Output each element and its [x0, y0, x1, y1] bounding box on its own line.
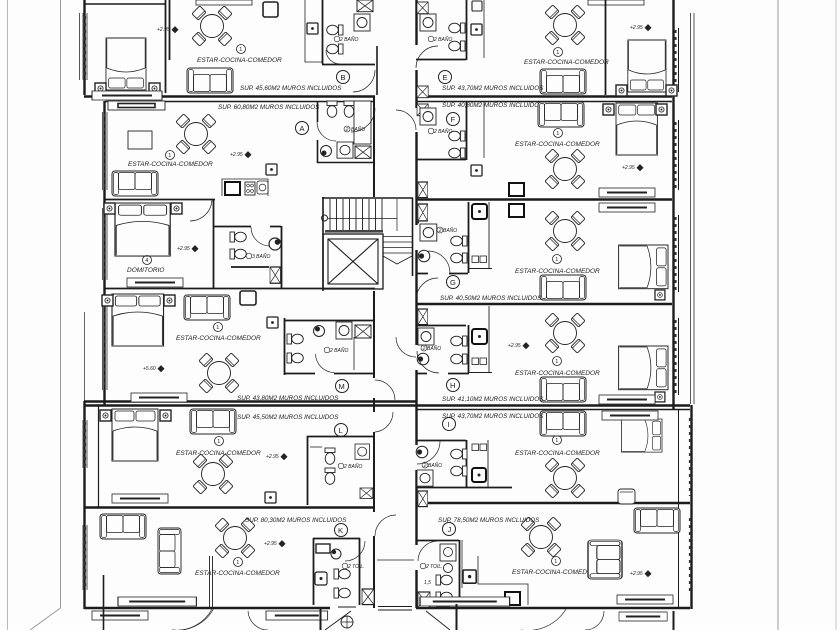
bath L walls [307, 436, 375, 505]
room number H [553, 357, 562, 366]
left outer wall top (row B) [83, 0, 85, 95]
dining table M [199, 353, 239, 393]
wc A3 [230, 232, 246, 242]
duct J [418, 592, 430, 608]
stair walls [322, 197, 413, 291]
svg-text:+2.95: +2.95 [622, 165, 635, 171]
apt letter F [447, 113, 460, 126]
level mark H [508, 342, 530, 349]
dining table L [193, 454, 233, 494]
svg-text:1: 1 [239, 47, 242, 53]
nightstand A right [171, 203, 182, 214]
bath J walls [416, 540, 460, 605]
right outer wall lower [690, 405, 692, 609]
level mark J [630, 570, 652, 577]
room number E [554, 48, 563, 57]
svg-text:ESTAR-COCINA-COMEDOR: ESTAR-COCINA-COMEDOR [195, 570, 280, 577]
bath M walls [284, 318, 375, 375]
door arc M bath [316, 354, 335, 373]
svg-text:SUP. 78,50M2 MUROS INCLUIDO: SUP. 78,50M2 MUROS INCLUIDOS [438, 517, 540, 524]
apt letter J [443, 523, 456, 536]
terrace wall K [103, 575, 105, 630]
svg-text:ESTAR-COCINA-COMEDOR: ESTAR-COCINA-COMEDOR [512, 569, 597, 576]
sill M bottom [131, 393, 187, 402]
stair treads [330, 199, 382, 231]
dining table A [176, 114, 216, 154]
room number L [215, 437, 224, 446]
bed E [628, 40, 666, 92]
sill B bottom [92, 91, 162, 100]
kitchen cab A [266, 164, 277, 175]
property line right [777, 0, 779, 630]
corridor crossing band at M/L [375, 400, 416, 402]
dining table I [545, 458, 585, 498]
bottom wall left block [84, 607, 330, 609]
right block corridor wall [415, 0, 417, 608]
dining table H [545, 313, 585, 353]
svg-text:SUP. 45,50M2 MUROS INCLUIDO: SUP. 45,50M2 MUROS INCLUIDOS [237, 414, 339, 421]
room number A [166, 151, 175, 160]
room number K [234, 558, 243, 567]
svg-text:ESTAR-COCINA-COMEDOR: ESTAR-COCINA-COMEDOR [515, 141, 600, 148]
nightstand B left [95, 83, 106, 94]
bed F [616, 103, 657, 155]
sill E top [588, 0, 644, 5]
left outer wall middle [103, 101, 105, 405]
svg-text:+5.60: +5.60 [143, 366, 156, 372]
nightstand E [666, 85, 677, 96]
svg-text:ESTAR-COCINA-COMEDOR: ESTAR-COCINA-COMEDOR [128, 161, 213, 168]
dining table F [545, 149, 585, 189]
balcony rail left top [80, 13, 84, 80]
svg-text:J: J [448, 525, 452, 534]
svg-text:SUP. 40,50M2 MUROS INCLUIDO: SUP. 40,50M2 MUROS INCLUIDOS [440, 295, 542, 302]
entry door K [375, 515, 396, 536]
level mark L [266, 453, 288, 460]
sill B top [196, 0, 252, 5]
level mark B [157, 26, 179, 33]
basin M [314, 326, 325, 337]
tv cabinet A [108, 101, 165, 110]
dining table E [545, 5, 585, 45]
svg-text:SUP. 41,10M2 MUROS INCLUIDO: SUP. 41,10M2 MUROS INCLUIDOS [442, 396, 544, 403]
door arc H bath [417, 351, 439, 373]
bed L [112, 409, 158, 461]
stove A [245, 182, 255, 195]
entry door G [416, 278, 438, 300]
svg-text:1,5: 1,5 [424, 580, 431, 586]
duct I [418, 491, 428, 507]
svg-text:SUP. 45,60M2 MUROS INCLUIDO: SUP. 45,60M2 MUROS INCLUIDOS [240, 85, 342, 92]
wc L [325, 448, 335, 464]
bed A [115, 203, 170, 256]
wc K2 [334, 588, 350, 598]
svg-text:A: A [300, 124, 305, 133]
balcony rail right [691, 13, 695, 404]
bath A wall [317, 101, 375, 163]
door arc G bath [428, 251, 450, 273]
duct A3 [270, 267, 280, 283]
svg-text:+2.95: +2.95 [630, 25, 643, 31]
wc M [287, 334, 303, 344]
counter K [316, 544, 330, 553]
svg-text:+2.95: +2.95 [177, 246, 190, 252]
terrace stub J [673, 611, 675, 630]
apt letter G [447, 276, 460, 289]
bidet G [451, 253, 467, 263]
sink F [420, 108, 436, 125]
sofa E [540, 69, 586, 94]
kitchen sink A [257, 181, 268, 194]
elevator [323, 234, 383, 289]
svg-text:ESTAR-COCINA-COMEDOR: ESTAR-COCINA-COMEDOR [524, 59, 609, 66]
door arc K terrace [172, 609, 212, 630]
right outer wall upper [672, 0, 674, 410]
bath F wall [416, 101, 467, 160]
door arc A bath [317, 122, 336, 141]
sofa L [190, 409, 236, 434]
bed I horizontal, pillow right [621, 419, 662, 452]
kitchen F [483, 101, 485, 158]
kitchen cab B2 [263, 2, 278, 17]
bidet M [287, 353, 303, 363]
dining table G [545, 211, 585, 251]
svg-text:ESTAR-COCINA-COMEDOR: ESTAR-COCINA-COMEDOR [176, 450, 261, 457]
right block row walls [416, 95, 672, 97]
door arc K bath [345, 541, 365, 561]
level mark K [264, 540, 286, 547]
partition wall E [605, 0, 607, 95]
kitchen E [483, 0, 485, 58]
level mark dorm [177, 245, 199, 252]
svg-text:F: F [451, 115, 456, 124]
armchair I [618, 489, 635, 504]
level mark A [230, 151, 252, 158]
room number dorm [143, 256, 152, 265]
svg-text:SUP. 43,70M2 MUROS INCLUIDO: SUP. 43,70M2 MUROS INCLUIDOS [442, 413, 544, 420]
svg-text:1: 1 [556, 131, 559, 137]
apt letter A [296, 122, 309, 135]
svg-text:1: 1 [554, 559, 557, 565]
door arc B bath [326, 50, 340, 64]
bath H wall [416, 325, 469, 374]
svg-text:K: K [338, 526, 343, 535]
room number J [552, 557, 561, 566]
sill I top [602, 411, 658, 420]
level mark F [622, 164, 644, 171]
sheet edge faint line [7, 0, 9, 630]
svg-text:DOMITORIO: DOMITORIO [127, 267, 164, 274]
balcony rail left M [84, 312, 86, 401]
svg-text:2: 2 [422, 346, 426, 352]
bidet J [436, 592, 452, 602]
svg-text:+2.95: +2.95 [230, 152, 243, 158]
apt letter E [439, 71, 452, 84]
svg-text:SUP. 43,70M2 MUROS INCLUIDO: SUP. 43,70M2 MUROS INCLUIDOS [442, 85, 544, 92]
kitchen I [487, 440, 489, 487]
bedroom A wall [213, 199, 215, 288]
sheet right faint [835, 0, 837, 630]
apt letter I [443, 418, 456, 431]
sink G [420, 224, 437, 241]
svg-text:3 BAÑO: 3 BAÑO [252, 253, 270, 260]
wc B [327, 25, 343, 35]
kitchen G [468, 202, 492, 269]
bath B wall [322, 0, 375, 65]
bidet L [325, 468, 335, 484]
duct B [357, 0, 373, 12]
sofa K [100, 514, 146, 539]
duct E [417, 2, 428, 14]
apt letter K [335, 524, 348, 537]
kitchen H [468, 306, 492, 373]
room number G [553, 255, 562, 264]
sofa K vertical [158, 528, 181, 574]
wc F [449, 131, 465, 141]
sill K above bottom wall [118, 597, 196, 606]
sill J2 above [617, 595, 673, 604]
door arc J bath [418, 541, 438, 561]
bed H horizontal, pillow right [619, 346, 668, 390]
corridor door H [396, 337, 416, 357]
wall under living A [104, 199, 215, 201]
wc K [334, 569, 350, 579]
wc E [449, 23, 465, 33]
terrace arc K2 [248, 611, 268, 630]
svg-text:2 TOIL.: 2 TOIL. [347, 564, 365, 570]
sill G top [599, 203, 655, 212]
shower J [440, 544, 456, 561]
duct F [417, 86, 428, 98]
sink B [354, 14, 370, 31]
nightstand H [655, 392, 665, 402]
door arc A3 [251, 227, 270, 246]
bidet B [327, 44, 343, 54]
svg-text:H: H [450, 381, 455, 390]
sofa H [540, 377, 586, 402]
duct H [418, 309, 428, 325]
nightstand B right [149, 83, 160, 94]
kitchen B counter [305, 0, 322, 62]
apt letter L [335, 424, 348, 437]
wc G [451, 236, 467, 246]
nightstand F left [603, 104, 614, 115]
sofa J horizontal [634, 508, 680, 533]
sofa G [540, 275, 586, 300]
bath K walls [313, 538, 360, 605]
nightstand A left [104, 203, 115, 214]
kitchen J counter [462, 540, 528, 605]
sink A3 [269, 238, 281, 250]
sofa A [112, 171, 158, 196]
svg-text:SUP. 60,80M2 MUROS INCLUIDO: SUP. 60,80M2 MUROS INCLUIDOS [218, 104, 320, 111]
sink J [444, 564, 453, 573]
dining table B [192, 6, 232, 46]
svg-text:2: 2 [345, 127, 349, 133]
svg-text:I: I [448, 420, 450, 429]
bidet F [449, 148, 465, 158]
level mark M [143, 365, 165, 372]
svg-text:2 BAÑO: 2 BAÑO [329, 347, 348, 354]
sink E [420, 14, 436, 31]
fridge G [509, 204, 524, 217]
duct K [362, 589, 374, 605]
sink I [417, 470, 433, 486]
sill L bottom [112, 494, 168, 503]
sill H bottom [599, 395, 655, 404]
sofa F [538, 102, 584, 127]
entry door M [375, 380, 395, 400]
nightstand M left [102, 295, 113, 306]
bidet A3 [230, 249, 246, 259]
svg-text:2 BAÑO: 2 BAÑO [339, 36, 358, 43]
svg-text:1: 1 [555, 359, 558, 365]
A/M wall [104, 288, 375, 290]
kitchen A counter [222, 179, 268, 196]
kitchen wall K [210, 556, 213, 607]
apt letter B [337, 71, 350, 84]
svg-text:+2.95: +2.95 [266, 454, 279, 460]
svg-text:BAÑO: BAÑO [428, 462, 442, 469]
svg-text:BAÑO: BAÑO [443, 227, 457, 234]
sofa J vertical [588, 540, 622, 579]
property line left [60, 0, 62, 608]
kitchen L [265, 492, 276, 503]
top wall B [84, 3, 166, 5]
left block corridor wall [373, 96, 375, 608]
door arc E bath [416, 46, 438, 68]
svg-text:1: 1 [168, 153, 171, 159]
nightstand F right [656, 104, 667, 115]
svg-text:2: 2 [438, 228, 442, 234]
apt letter H [447, 379, 460, 392]
svg-text:ESTAR-COCINA-COMEDOR: ESTAR-COCINA-COMEDOR [176, 335, 261, 342]
sill K2 below [266, 611, 328, 620]
door arc I bath [417, 441, 440, 464]
nightstand G [655, 290, 665, 300]
sofa B [187, 68, 233, 93]
svg-text:ESTAR-COCINA-COMEDOR: ESTAR-COCINA-COMEDOR [197, 57, 282, 64]
sill K below [92, 611, 148, 620]
svg-text:E: E [443, 73, 448, 82]
left outer wall lower [83, 401, 85, 609]
bath E wall [416, 0, 467, 60]
sink H [418, 328, 434, 345]
corridor door F [396, 110, 416, 130]
room number I [553, 436, 562, 445]
sink L [355, 444, 369, 459]
svg-text:2 TOIL.: 2 TOIL. [425, 564, 443, 570]
entry door B [353, 70, 375, 92]
sink K [315, 572, 327, 585]
kitchen cab B [307, 23, 318, 34]
duct G [418, 204, 428, 221]
svg-text:1: 1 [216, 325, 219, 331]
svg-text:1: 1 [217, 439, 220, 445]
window sill A bedroom [127, 278, 183, 287]
svg-text:1: 1 [555, 257, 558, 263]
bidet I [451, 466, 467, 476]
svg-text:BAÑO: BAÑO [427, 345, 441, 352]
nightstand L right [160, 410, 171, 421]
sink M [336, 322, 352, 339]
nightstand M right [164, 295, 175, 306]
apt letter M [336, 380, 349, 393]
svg-text:2 BAÑO: 2 BAÑO [343, 463, 362, 470]
svg-text:1: 1 [555, 438, 558, 444]
svg-text:M: M [339, 382, 345, 391]
M/L double wall [84, 400, 375, 402]
nightstand L left [100, 410, 111, 421]
entry door A [351, 108, 375, 132]
tv A [128, 131, 152, 149]
svg-text:+2.95: +2.95 [630, 571, 643, 577]
entry door L [375, 412, 393, 432]
sill F bottom [599, 188, 655, 197]
dining table K [215, 518, 255, 558]
sill J above bottom [420, 597, 510, 606]
svg-text:+2.95: +2.95 [508, 343, 521, 349]
wc I [451, 449, 467, 459]
svg-text:2 BAÑO: 2 BAÑO [433, 36, 452, 43]
stair return treads [383, 237, 412, 254]
stair landing edge [325, 230, 383, 233]
bed M [112, 294, 164, 346]
svg-text:SUP. 80,30M2 MUROS INCLUIDO: SUP. 80,30M2 MUROS INCLUIDOS [245, 517, 347, 524]
svg-text:SUP. 43,80M2 MUROS INCLUIDO: SUP. 43,80M2 MUROS INCLUIDOS [237, 395, 339, 402]
svg-text:ESTAR-COCINA-COMEDOR: ESTAR-COCINA-COMEDOR [515, 268, 600, 275]
bidet E [449, 41, 465, 51]
bath G wall [416, 202, 469, 274]
shower K [331, 549, 341, 559]
terrace door arcs bottom [172, 608, 214, 630]
wc H [451, 336, 467, 346]
bath A3 walls [213, 226, 282, 288]
svg-text:L: L [339, 426, 343, 435]
fridge F [509, 183, 524, 196]
room number B [237, 45, 246, 54]
kitchen M cab [240, 291, 256, 305]
sofa I [540, 411, 586, 436]
svg-text:B: B [341, 73, 346, 82]
svg-text:2 BAÑO: 2 BAÑO [433, 128, 452, 135]
duct M [355, 325, 371, 338]
room number M [214, 323, 223, 332]
svg-text:4: 4 [145, 258, 148, 264]
svg-text:ESTAR-COCINA-COMEDOR: ESTAR-COCINA-COMEDOR [515, 370, 600, 377]
svg-text:2: 2 [423, 463, 427, 469]
bed B [106, 38, 146, 90]
stair start circle [322, 215, 328, 221]
svg-text:1: 1 [236, 560, 239, 566]
svg-text:1: 1 [556, 50, 559, 56]
wall band B/A row [84, 95, 375, 97]
sofa M [184, 295, 230, 320]
partition wall B [166, 0, 170, 93]
L/K wall [84, 506, 375, 508]
svg-text:G: G [450, 278, 456, 287]
bath A fixtures [327, 101, 337, 117]
duct L [360, 488, 373, 498]
wc J [436, 575, 452, 585]
fridge A [225, 182, 240, 195]
basin A [321, 146, 332, 157]
bidet H [451, 354, 467, 364]
dining table J [521, 517, 561, 557]
basin G [418, 250, 430, 262]
svg-text:+2.95: +2.95 [264, 541, 277, 547]
room number F [554, 129, 563, 138]
